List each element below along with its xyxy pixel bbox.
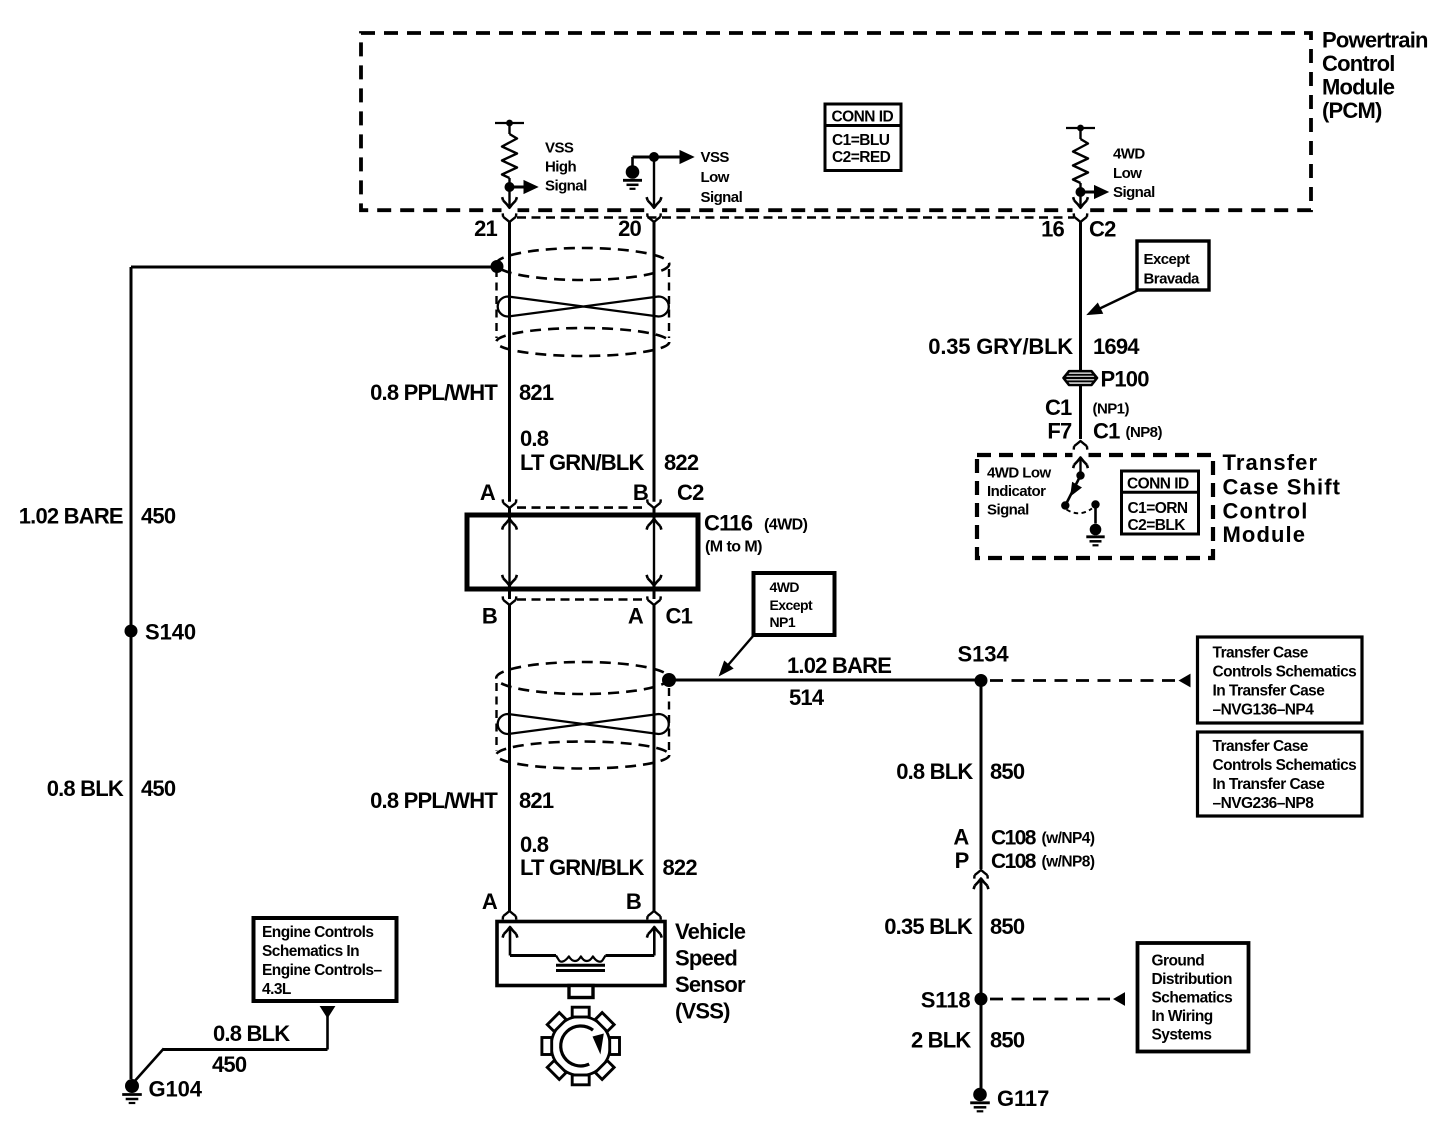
svg-text:P100: P100 — [1101, 367, 1150, 392]
svg-text:(NP1): (NP1) — [1093, 401, 1130, 418]
svg-text:Transfer Case: Transfer Case — [1213, 645, 1309, 662]
svg-text:(PCM): (PCM) — [1322, 98, 1382, 123]
svg-text:Signal: Signal — [701, 189, 743, 206]
svg-text:In Transfer Case: In Transfer Case — [1213, 683, 1326, 700]
svg-text:LT GRN/BLK: LT GRN/BLK — [520, 855, 644, 880]
svg-text:C108: C108 — [991, 827, 1037, 850]
svg-text:Case Shift: Case Shift — [1223, 475, 1342, 500]
svg-text:(w/NP8): (w/NP8) — [1042, 854, 1095, 871]
svg-text:Bravada: Bravada — [1144, 271, 1201, 288]
svg-text:Controls Schematics: Controls Schematics — [1213, 757, 1357, 774]
svg-text:850: 850 — [990, 759, 1025, 784]
svg-text:Low: Low — [1113, 165, 1142, 182]
svg-text:4WD: 4WD — [770, 579, 800, 595]
svg-text:0.35 GRY/BLK: 0.35 GRY/BLK — [928, 334, 1073, 359]
svg-text:–NVG236–NP8: –NVG236–NP8 — [1213, 795, 1315, 812]
svg-text:514: 514 — [789, 685, 825, 710]
svg-text:Sensor: Sensor — [675, 972, 746, 997]
svg-text:–NVG136–NP4: –NVG136–NP4 — [1213, 702, 1315, 719]
svg-text:C108: C108 — [991, 850, 1037, 873]
svg-text:B: B — [482, 604, 497, 629]
svg-text:VSS: VSS — [545, 140, 574, 157]
svg-text:C2: C2 — [1089, 217, 1116, 242]
svg-text:Speed: Speed — [675, 946, 737, 971]
svg-text:B: B — [626, 889, 641, 914]
svg-text:(w/NP4): (w/NP4) — [1042, 830, 1095, 847]
svg-text:(M to M): (M to M) — [705, 539, 762, 556]
svg-text:21: 21 — [474, 216, 497, 241]
svg-text:F7: F7 — [1047, 419, 1072, 444]
svg-text:0.8: 0.8 — [520, 832, 549, 857]
svg-text:S118: S118 — [921, 988, 971, 1013]
svg-text:Systems: Systems — [1152, 1027, 1212, 1044]
svg-text:A: A — [482, 889, 498, 914]
svg-text:Module: Module — [1322, 75, 1395, 100]
svg-text:S140: S140 — [145, 620, 196, 645]
svg-text:B: B — [633, 480, 648, 505]
svg-text:VSS: VSS — [701, 149, 730, 166]
svg-text:4WD Low: 4WD Low — [987, 465, 1052, 482]
svg-text:G104: G104 — [149, 1077, 203, 1102]
svg-text:0.8 BLK: 0.8 BLK — [213, 1021, 290, 1046]
svg-text:Transfer Case: Transfer Case — [1213, 738, 1309, 755]
svg-text:Schematics: Schematics — [1152, 990, 1233, 1007]
svg-text:Engine Controls–: Engine Controls– — [262, 962, 382, 979]
svg-text:Distribution: Distribution — [1152, 971, 1232, 988]
svg-text:S134: S134 — [958, 642, 1010, 667]
svg-text:High: High — [545, 159, 577, 176]
svg-text:821: 821 — [519, 788, 554, 813]
svg-text:P: P — [955, 848, 969, 873]
svg-text:Control: Control — [1322, 51, 1395, 76]
svg-text:822: 822 — [663, 855, 698, 880]
svg-text:Signal: Signal — [545, 178, 587, 195]
svg-text:821: 821 — [519, 380, 554, 405]
svg-text:0.8: 0.8 — [520, 426, 549, 451]
svg-text:In Wiring: In Wiring — [1152, 1008, 1213, 1025]
svg-text:0.35 BLK: 0.35 BLK — [884, 914, 973, 939]
svg-text:C1=BLU: C1=BLU — [832, 132, 890, 149]
svg-text:Control: Control — [1223, 499, 1309, 524]
svg-text:0.8 PPL/WHT: 0.8 PPL/WHT — [370, 788, 498, 813]
svg-text:4WD: 4WD — [1113, 146, 1145, 163]
svg-text:C1: C1 — [666, 604, 693, 629]
svg-text:C1: C1 — [1045, 395, 1072, 420]
svg-text:Transfer: Transfer — [1223, 450, 1319, 475]
svg-text:0.8 PPL/WHT: 0.8 PPL/WHT — [370, 380, 498, 405]
svg-text:1.02 BARE: 1.02 BARE — [19, 504, 123, 529]
svg-text:Indicator: Indicator — [987, 483, 1046, 500]
svg-text:16: 16 — [1041, 217, 1064, 242]
svg-text:(4WD): (4WD) — [764, 517, 808, 534]
svg-text:450: 450 — [212, 1052, 247, 1077]
svg-text:Controls Schematics: Controls Schematics — [1213, 664, 1357, 681]
svg-text:C2=BLK: C2=BLK — [1128, 517, 1187, 534]
svg-text:(NP8): (NP8) — [1126, 424, 1163, 441]
svg-text:(VSS): (VSS) — [675, 999, 730, 1024]
svg-text:Except: Except — [770, 597, 813, 613]
svg-text:Low: Low — [701, 169, 730, 186]
svg-text:C116: C116 — [704, 511, 753, 536]
svg-text:A: A — [480, 480, 496, 505]
svg-text:NP1: NP1 — [770, 614, 796, 630]
svg-text:Engine Controls: Engine Controls — [262, 924, 373, 941]
svg-text:C1=ORN: C1=ORN — [1128, 500, 1188, 517]
svg-text:G117: G117 — [997, 1086, 1049, 1111]
svg-text:A: A — [953, 825, 969, 850]
svg-text:450: 450 — [141, 776, 176, 801]
svg-text:850: 850 — [990, 914, 1025, 939]
svg-text:20: 20 — [618, 216, 641, 241]
svg-text:850: 850 — [990, 1028, 1025, 1053]
svg-text:Schematics In: Schematics In — [262, 943, 359, 960]
svg-text:Module: Module — [1223, 522, 1307, 547]
svg-text:C2: C2 — [677, 480, 704, 505]
svg-text:822: 822 — [664, 450, 699, 475]
svg-text:0.8 BLK: 0.8 BLK — [47, 776, 124, 801]
svg-text:2 BLK: 2 BLK — [911, 1028, 971, 1053]
svg-text:A: A — [628, 604, 644, 629]
svg-text:1.02 BARE: 1.02 BARE — [787, 653, 891, 678]
svg-text:Ground: Ground — [1152, 953, 1205, 970]
svg-text:Signal: Signal — [987, 502, 1029, 519]
svg-text:C2=RED: C2=RED — [832, 149, 891, 166]
svg-text:Vehicle: Vehicle — [675, 919, 746, 944]
svg-text:1694: 1694 — [1093, 334, 1140, 359]
svg-text:Signal: Signal — [1113, 184, 1155, 201]
svg-text:Powertrain: Powertrain — [1322, 28, 1428, 53]
svg-text:4.3L: 4.3L — [262, 981, 291, 998]
svg-text:LT GRN/BLK: LT GRN/BLK — [520, 450, 644, 475]
svg-text:Except: Except — [1144, 251, 1190, 268]
svg-text:In Transfer Case: In Transfer Case — [1213, 776, 1326, 793]
svg-text:450: 450 — [141, 504, 176, 529]
svg-text:CONN ID: CONN ID — [1127, 476, 1189, 493]
svg-text:C1: C1 — [1093, 419, 1120, 444]
svg-text:0.8 BLK: 0.8 BLK — [896, 759, 973, 784]
svg-text:CONN ID: CONN ID — [832, 109, 894, 126]
